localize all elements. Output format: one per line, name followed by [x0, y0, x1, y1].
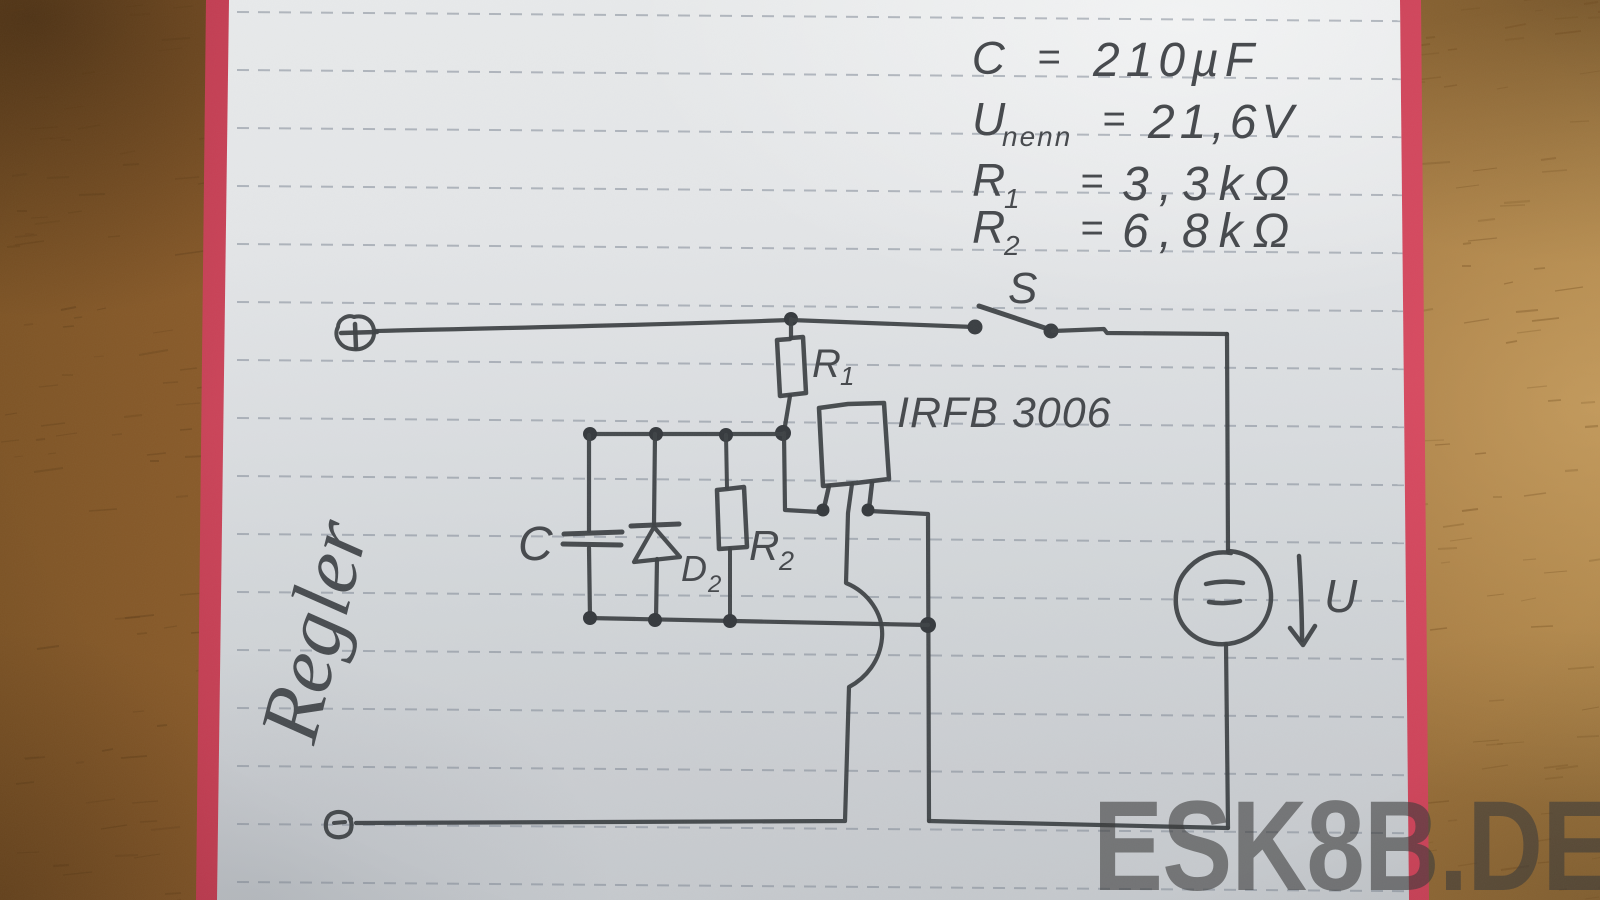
capacitor bottom wire	[589, 548, 590, 618]
U arrow	[1299, 556, 1302, 640]
gate wire	[784, 433, 820, 512]
MOSFET source leg	[869, 483, 872, 509]
resistor R2	[717, 487, 747, 549]
junction node top rail left (C branch)	[583, 427, 597, 441]
junction node top rail middle (D2 branch)	[649, 427, 663, 441]
junction node top rail right (R2 branch)	[719, 428, 733, 442]
R2 bottom wire	[728, 549, 732, 620]
voltage source circle	[1176, 551, 1271, 644]
junction node bottom rail right (R2 branch)	[723, 614, 737, 628]
capacitor C top plate	[564, 532, 622, 534]
MOSFET U1 body	[819, 403, 889, 486]
MOSFET gate leg	[824, 486, 829, 508]
switch lever	[979, 306, 1048, 329]
R2 top wire	[726, 435, 727, 488]
switch S left contact	[968, 320, 983, 335]
wire source bottom to corner	[1226, 644, 1228, 828]
source inner line 2	[1209, 601, 1240, 603]
diode D2 triangle	[634, 527, 680, 562]
R1 top wire	[789, 319, 793, 338]
subcircuit bottom rail	[588, 618, 928, 625]
plus terminal	[336, 316, 377, 349]
R1 bottom wire	[784, 396, 790, 432]
resistor R1	[777, 337, 806, 396]
bottom wire right segment	[929, 821, 1228, 828]
MOSFET drain leg + drain wire with hop	[356, 484, 882, 823]
junction node bottom rail middle (D2 branch)	[648, 613, 662, 627]
diode D2 branch top wire	[654, 434, 655, 524]
junction R1 bottom	[775, 425, 791, 441]
handwritten values top right	[971, 31, 1299, 261]
wire node to switch	[791, 320, 974, 327]
switch right contact	[1044, 324, 1059, 339]
wire switch to corner	[1053, 329, 1227, 334]
source-leg vertical wire	[870, 511, 929, 821]
wire plus to node	[376, 320, 790, 331]
node junction top	[784, 312, 798, 326]
capacitor C branch top wire	[587, 435, 591, 531]
diode bottom wire	[656, 559, 657, 619]
minus terminal	[326, 812, 352, 837]
junction dot bottom rail right	[920, 617, 936, 633]
right vertical wire	[1227, 334, 1228, 552]
capacitor C bottom plate	[563, 544, 621, 545]
junction node bottom rail left (C branch)	[583, 611, 597, 625]
subcircuit top rail	[586, 432, 784, 436]
diode D2 cathode bar	[631, 524, 679, 526]
source inner line 1	[1206, 582, 1243, 584]
